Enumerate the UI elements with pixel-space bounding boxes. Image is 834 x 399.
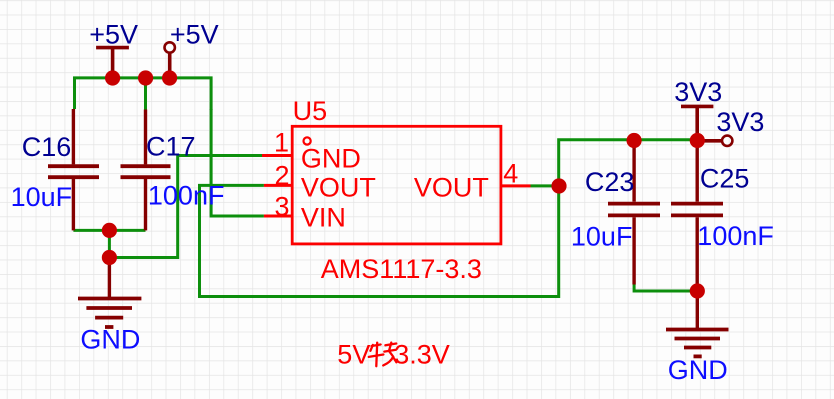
svg-text:C25: C25 [700, 164, 750, 194]
annotation Chinese char zhuan [369, 343, 397, 367]
ground symbol right [666, 291, 729, 356]
junction top rail at C17 [138, 70, 153, 85]
svg-text:GND: GND [80, 324, 140, 354]
wire U5 GND pin 1 to ground node [109, 156, 262, 258]
wire C17 top [144, 78, 147, 110]
pin 4 stub [501, 184, 531, 187]
svg-text:VIN: VIN [301, 202, 346, 232]
junction 3V3 rail at C23 [627, 133, 642, 148]
wire +5V to VIN pin 3 [211, 109, 264, 216]
junction ground node [102, 250, 117, 265]
wire +5V top rail [75, 78, 212, 110]
svg-text:U5: U5 [293, 96, 328, 126]
wire U5 VOUT pin 2 to bottom run [200, 140, 698, 297]
annotation 5V to 3.3V [337, 339, 449, 369]
wire C23 bottom to C25 bottom [634, 284, 697, 291]
pin 1 stub [262, 154, 292, 157]
power symbol 3V3 bar [681, 106, 713, 140]
svg-text:3V3: 3V3 [716, 107, 764, 137]
junction caps bottom [102, 223, 117, 238]
svg-text:5V: 5V [337, 339, 370, 369]
svg-text:2: 2 [274, 161, 289, 191]
junction pin 4 node [551, 178, 566, 193]
svg-text:VOUT: VOUT [414, 172, 489, 202]
pin 2 stub [264, 184, 292, 187]
junction 3V3 rail at C25 [690, 133, 705, 148]
svg-text:100nF: 100nF [148, 180, 225, 210]
capacitor C25 [671, 141, 723, 292]
svg-text:C17: C17 [146, 131, 196, 161]
pin 3 stub [264, 215, 292, 218]
svg-text:3: 3 [274, 192, 289, 222]
svg-text:GND: GND [301, 143, 361, 173]
wire caps C16 C17 bottom rail [73, 229, 145, 232]
svg-text:10uF: 10uF [571, 221, 633, 251]
wire ground node vertical [108, 230, 111, 257]
svg-text:AMS1117-3.3: AMS1117-3.3 [321, 254, 482, 284]
svg-text:+5V: +5V [89, 19, 138, 49]
power symbol +5V bar [96, 48, 129, 78]
capacitor C17 [121, 110, 171, 231]
svg-text:1: 1 [274, 128, 289, 158]
svg-text:3V3: 3V3 [674, 77, 722, 107]
power pin 3V3 circle [703, 136, 732, 146]
ground symbol left [78, 258, 141, 328]
regulator IC U5 AMS1117-3.3 body [292, 126, 501, 244]
svg-text:+5V: +5V [170, 19, 219, 49]
svg-text:VOUT: VOUT [301, 172, 376, 202]
svg-text:100nF: 100nF [697, 221, 774, 251]
junction top rail at +5V pin [162, 70, 177, 85]
power pin +5V circle [165, 42, 175, 78]
svg-text:GND: GND [668, 355, 728, 385]
svg-text:10uF: 10uF [11, 182, 73, 212]
pin 1 indicator circle [304, 137, 311, 144]
svg-text:C23: C23 [585, 167, 635, 197]
svg-text:3.3V: 3.3V [394, 339, 450, 369]
capacitor C23 [608, 141, 660, 285]
svg-text:4: 4 [503, 159, 518, 189]
wire U5 pin 4 link [531, 184, 559, 187]
junction top rail at power bar [105, 70, 120, 85]
capacitor C16 [48, 109, 99, 230]
svg-text:C16: C16 [22, 132, 72, 162]
junction right ground node [690, 283, 705, 298]
